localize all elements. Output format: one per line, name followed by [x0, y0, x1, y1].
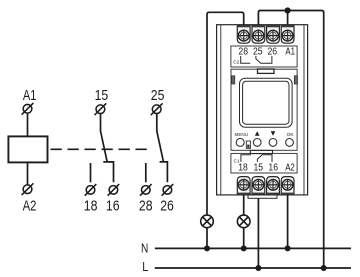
button glyph up: [255, 131, 260, 135]
svg-text:A2: A2: [23, 198, 37, 215]
junction: A1 tap on top wire: [285, 7, 291, 13]
bottom terminal tower A2: [281, 177, 294, 195]
right hinge clip: [294, 76, 297, 84]
junction lamp L1 on N: [204, 245, 210, 251]
L line: [155, 267, 351, 269]
switch contact C2 lever (25-26): [157, 131, 164, 162]
junction lamp L2 on N: [241, 245, 247, 251]
N line: [155, 247, 351, 249]
bottom terminal tower 15: [252, 177, 265, 195]
lamp L2: [237, 215, 250, 228]
svg-text:A1: A1: [23, 87, 37, 104]
contact diagram C1: [241, 155, 272, 162]
wire lamp L1 to N: [206, 228, 208, 249]
svg-text:25: 25: [151, 87, 165, 104]
contact diagram C2: [241, 56, 272, 63]
top terminal tower A1: [281, 25, 294, 43]
wire 15 to switch pivot: [100, 114, 102, 131]
DIN rail clip tab: [248, 195, 277, 198]
terminal 16: [108, 184, 120, 196]
junction L riser on L: [321, 265, 327, 271]
terminal 18 stub: [90, 163, 92, 182]
lamp L1: [201, 215, 214, 228]
terminal 25: [151, 103, 163, 115]
svg-text:A1: A1: [285, 47, 295, 58]
svg-text:25: 25: [253, 47, 263, 58]
svg-text:16: 16: [106, 198, 120, 215]
wire 25 to switch pivot: [156, 114, 158, 131]
wire: terminal 15 to L: [257, 198, 259, 268]
svg-text:N: N: [141, 241, 148, 255]
wire: device 28 up-left down to lamp L1: [207, 12, 244, 215]
bottom terminal tower 16: [267, 177, 280, 195]
svg-text:15: 15: [95, 87, 109, 104]
button glyph down: [271, 131, 276, 135]
svg-text:26: 26: [268, 47, 278, 58]
terminal A1: [22, 103, 34, 115]
switch contact C2 throw to 26: [160, 162, 168, 182]
svg-text:18: 18: [238, 163, 248, 174]
svg-text:28: 28: [238, 47, 248, 58]
terminal 28: [140, 184, 152, 196]
device case inner side lines: [221, 25, 304, 195]
bottom label strip: [231, 153, 297, 173]
top center tab: [258, 69, 275, 73]
coil K1: [8, 136, 47, 162]
wire: terminal A2 to N: [287, 195, 289, 249]
junction 15 on L: [255, 265, 261, 271]
top label strip: [231, 46, 297, 67]
wire: junction down to A1 terminal: [287, 11, 289, 28]
LCD screen: [243, 81, 289, 124]
button up: [253, 139, 261, 147]
svg-text:OK: OK: [287, 132, 295, 138]
button MENU: [236, 138, 244, 146]
mechanical link (dashed): [51, 148, 152, 150]
mid face panel: [231, 69, 297, 150]
top terminal tower 26: [267, 25, 280, 43]
terminal 18: [85, 184, 97, 196]
top terminal tower 28: [237, 25, 250, 43]
bottom center tab: [250, 150, 272, 153]
svg-text:L: L: [142, 260, 148, 274]
svg-text:28: 28: [139, 198, 153, 215]
svg-text:MENU: MENU: [235, 132, 249, 137]
wire: terminal 18 to lamp L2: [243, 195, 245, 215]
switch contact C1 throw to 16: [103, 162, 113, 182]
slide switch: [246, 141, 250, 150]
terminal 15: [95, 103, 107, 115]
bottom terminal tower 18: [237, 177, 250, 195]
wire A1 to coil: [27, 113, 29, 136]
svg-text:A2: A2: [285, 163, 295, 174]
terminal 28 stub: [145, 163, 147, 182]
svg-text:15: 15: [254, 163, 264, 174]
junction A2 on N: [285, 245, 291, 251]
svg-text:26: 26: [160, 198, 174, 215]
button OK: [286, 139, 294, 147]
wire: L feed from right riser to 25 and A1: [258, 11, 323, 269]
LCD bezel: [240, 78, 293, 127]
svg-text:18: 18: [84, 198, 98, 215]
svg-text:16: 16: [268, 163, 278, 174]
wire lamp L2 to N: [243, 228, 245, 249]
wire coil to A2: [27, 163, 29, 185]
switch contact C1 lever (15-16): [101, 131, 108, 162]
timer device body: [217, 25, 308, 195]
left hinge clip: [232, 76, 235, 84]
terminal A2: [22, 183, 34, 195]
button down: [269, 139, 277, 147]
svg-text:C2: C2: [233, 59, 239, 65]
top terminal tower 25: [252, 25, 265, 43]
terminal 26: [162, 184, 174, 196]
